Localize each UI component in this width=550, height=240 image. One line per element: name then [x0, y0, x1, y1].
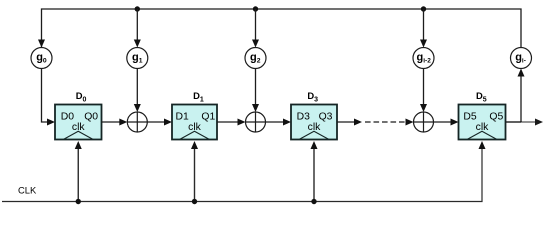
- svg-text:D3: D3: [297, 112, 311, 123]
- label D1 block: [193, 90, 204, 104]
- svg-text:clk: clk: [188, 122, 202, 133]
- multiplier g0: [31, 48, 52, 69]
- svg-text:clk: clk: [308, 122, 322, 133]
- wire: xor X1 output into D1: [147, 119, 172, 126]
- wire: Q1 output into xor X2: [217, 119, 246, 126]
- xor X2: [246, 112, 266, 132]
- multiplier gi: [511, 48, 532, 69]
- wire: g2 output down into xor X2: [252, 69, 259, 113]
- wire: xor X2 output into D3: [266, 119, 292, 126]
- wire: g0 tap drop from top bus: [38, 40, 45, 48]
- junction: CLK bus / D1 riser: [192, 199, 197, 204]
- multiplier g2: [245, 48, 266, 69]
- svg-text:Q1: Q1: [201, 112, 215, 123]
- wire: Q3 output arrow segment: [337, 119, 362, 126]
- wire: gi-2 tap drop from top bus: [420, 9, 427, 48]
- junction: CLK bus / D3 riser: [311, 199, 316, 204]
- svg-text:Q0: Q0: [84, 112, 98, 123]
- svg-text:Q3: Q3: [319, 112, 333, 123]
- wire: CLK riser to D5 clk: [479, 141, 486, 149]
- junction: Q5 output / feedback riser: [520, 121, 522, 122]
- wire: gi-2 output down into xor X3: [420, 69, 427, 113]
- label CLK net: [18, 185, 37, 196]
- wire: Q5 output to the right: [506, 119, 544, 126]
- svg-text:Q5: Q5: [489, 112, 503, 123]
- flip-flop D0: [55, 105, 102, 140]
- multiplier g1: [127, 48, 148, 69]
- junction: top bus / gi-2 tap: [421, 6, 426, 11]
- wire: g1 output down into xor X1: [134, 69, 141, 113]
- wire: top feedback bus: [42, 9, 522, 47]
- wire: g0 output down to D0 input row: [42, 69, 56, 126]
- wire: CLK riser to D1 clk: [191, 141, 198, 202]
- wire: CLK bus: [2, 148, 482, 202]
- flip-flop D5: [459, 105, 506, 140]
- wire: Q0 output into xor X1: [102, 119, 128, 126]
- flip-flop D3: [291, 105, 337, 140]
- svg-text:clk: clk: [476, 122, 490, 133]
- wire: xor X3 output into D5: [434, 119, 459, 126]
- multiplier gi-2: [413, 48, 434, 69]
- svg-text:D5: D5: [463, 112, 477, 123]
- junction: top bus / g2 tap: [253, 6, 258, 11]
- svg-text:clk: clk: [72, 122, 86, 133]
- wire: g1 tap drop from top bus: [134, 9, 141, 48]
- svg-text:D1: D1: [176, 112, 190, 123]
- label D3 block: [307, 90, 318, 104]
- svg-text:CLK: CLK: [18, 185, 37, 196]
- xor X3: [414, 112, 434, 132]
- xor X1: [127, 112, 147, 132]
- junction: CLK bus / D0 riser: [76, 199, 81, 204]
- svg-text:D0: D0: [61, 112, 75, 123]
- label D5 block: [476, 90, 487, 104]
- wire: dashed continuation to xor X3: [365, 119, 414, 126]
- junction: top bus / g1 tap: [135, 6, 140, 11]
- wire: g2 tap drop from top bus: [252, 9, 259, 48]
- wire: CLK riser to D0 clk: [75, 141, 82, 202]
- label D0 block: [76, 90, 87, 104]
- wire: feedback up into gi: [518, 69, 525, 123]
- wire: CLK riser to D3 clk: [311, 141, 318, 202]
- flip-flop D1: [172, 105, 217, 140]
